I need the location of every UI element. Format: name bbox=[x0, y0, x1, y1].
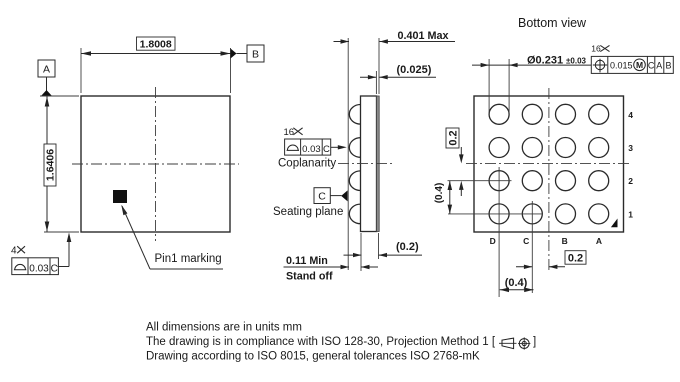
note line 1 bbox=[146, 322, 302, 334]
svg-text:Bottom view: Bottom view bbox=[518, 16, 587, 30]
svg-text:2: 2 bbox=[628, 176, 633, 186]
dimension (0.2) body thickness bbox=[344, 241, 423, 257]
svg-text:1.8008: 1.8008 bbox=[140, 39, 172, 51]
seating plane line bbox=[347, 38, 349, 270]
svg-text:A: A bbox=[43, 64, 50, 76]
datum C bbox=[314, 188, 348, 204]
svg-text:All dimensions are in units mm: All dimensions are in units mm bbox=[146, 322, 302, 334]
bottom view vertical centerline bbox=[548, 88, 550, 270]
svg-text:0.03: 0.03 bbox=[302, 144, 321, 155]
svg-text:A: A bbox=[656, 61, 662, 71]
first angle projection symbol bbox=[499, 337, 530, 349]
datum A bbox=[38, 60, 55, 96]
column labels bbox=[490, 236, 602, 246]
front view vertical centerline bbox=[155, 87, 157, 241]
svg-text:16: 16 bbox=[591, 43, 601, 53]
svg-text:C: C bbox=[318, 191, 326, 203]
bottom view title bbox=[518, 16, 587, 30]
bottom view package outline bbox=[474, 96, 624, 232]
side view horizontal centerline bbox=[338, 163, 393, 165]
svg-text:B: B bbox=[665, 61, 671, 71]
svg-text:B: B bbox=[562, 236, 568, 246]
svg-text:Ø0.231: Ø0.231 bbox=[527, 54, 563, 66]
dimension 0.2 left boxed bbox=[446, 128, 464, 196]
svg-text:0.03: 0.03 bbox=[29, 264, 49, 275]
svg-text:(0.4): (0.4) bbox=[505, 277, 528, 289]
svg-text:0.2: 0.2 bbox=[447, 130, 459, 145]
svg-text:16: 16 bbox=[284, 127, 295, 138]
svg-text:0.015: 0.015 bbox=[610, 60, 633, 70]
coplanarity label bbox=[278, 157, 336, 169]
side view body bbox=[361, 96, 377, 232]
svg-text:1.6406: 1.6406 bbox=[45, 149, 57, 181]
16x coplanarity count note bbox=[284, 127, 303, 138]
dimension (0.025) bbox=[360, 64, 436, 94]
4x profile feature control frame bbox=[12, 258, 59, 275]
svg-text:3: 3 bbox=[628, 143, 633, 153]
svg-text:Seating plane: Seating plane bbox=[273, 206, 343, 218]
svg-text:0.11 Min: 0.11 Min bbox=[286, 255, 328, 267]
svg-text:C: C bbox=[51, 264, 58, 275]
svg-text:]: ] bbox=[533, 336, 536, 348]
coplanarity frame leader arrow bbox=[331, 145, 347, 149]
svg-text:C: C bbox=[523, 236, 529, 246]
note line 3 bbox=[146, 351, 480, 363]
ball diameter dimension bbox=[472, 54, 591, 113]
svg-text:Pin1 marking: Pin1 marking bbox=[155, 253, 222, 265]
dimension 1.8008 extension lines bbox=[81, 48, 231, 93]
svg-text:B: B bbox=[252, 49, 259, 61]
svg-text:Stand off: Stand off bbox=[286, 271, 333, 283]
column D extension line bbox=[498, 167, 500, 297]
bottom edge extension line bbox=[44, 231, 79, 233]
note line 2 bbox=[146, 336, 536, 348]
4x frame leader to bottom edge bbox=[58, 233, 72, 267]
svg-text:M: M bbox=[636, 60, 643, 70]
svg-text:A: A bbox=[596, 236, 602, 246]
A1 corner mark bbox=[611, 219, 618, 228]
svg-text:4: 4 bbox=[11, 245, 17, 256]
svg-text:1: 1 bbox=[628, 209, 633, 219]
dimension 0.401 Max bbox=[334, 30, 456, 94]
svg-text:4: 4 bbox=[628, 110, 633, 120]
dimension 1.6406 line with arrows bbox=[45, 97, 50, 232]
datum B bbox=[231, 45, 265, 62]
coplanarity feature control frame bbox=[285, 139, 331, 155]
dimension 1.6406 boxed value bbox=[44, 144, 57, 186]
seating plane label bbox=[273, 206, 343, 218]
dimension 1.8008 line with arrows bbox=[81, 51, 231, 56]
svg-text:Drawing according to ISO 8015,: Drawing according to ISO 8015, general t… bbox=[146, 351, 480, 363]
svg-text:0.401 Max: 0.401 Max bbox=[398, 30, 449, 42]
16x position count note bbox=[591, 43, 609, 53]
dimension 0.11 Min stand off bbox=[284, 255, 379, 283]
row 2 extension line bbox=[448, 180, 512, 182]
dimension 1.8008 boxed value bbox=[137, 37, 176, 51]
svg-text:±0.03: ±0.03 bbox=[566, 56, 587, 65]
front view horizontal centerline bbox=[72, 163, 239, 165]
row 1 extension line bbox=[448, 213, 542, 215]
4x count note bbox=[11, 245, 25, 256]
svg-text:0.2: 0.2 bbox=[568, 253, 583, 265]
top edge extension line to datum A bbox=[40, 95, 79, 97]
pin1 leader and label bbox=[121, 205, 223, 269]
dimension (0.4) left bbox=[434, 181, 452, 214]
svg-text:(0.025): (0.025) bbox=[397, 64, 432, 76]
position feature control frame bbox=[591, 56, 673, 73]
column C extension line bbox=[531, 201, 533, 293]
svg-text:The drawing is in compliance w: The drawing is in compliance with ISO 12… bbox=[146, 336, 496, 348]
bottom view horizontal centerline bbox=[466, 163, 632, 165]
side view backside laminate bbox=[377, 96, 380, 232]
svg-text:C: C bbox=[648, 61, 655, 71]
pin1 marking square bbox=[113, 190, 127, 203]
dimension 0.2 bottom boxed bbox=[516, 251, 586, 269]
svg-text:Coplanarity: Coplanarity bbox=[278, 157, 336, 169]
row labels bbox=[628, 110, 633, 220]
svg-text:D: D bbox=[490, 236, 496, 246]
side bottom extension lines bbox=[361, 233, 379, 271]
svg-text:C: C bbox=[323, 144, 330, 155]
ball field 4x4 bbox=[489, 104, 609, 224]
svg-text:(0.2): (0.2) bbox=[396, 241, 419, 253]
dimension (0.4) bottom bbox=[500, 277, 534, 292]
svg-text:(0.4): (0.4) bbox=[434, 183, 445, 204]
side view solder balls bbox=[349, 105, 360, 224]
front view package outline bbox=[81, 96, 230, 232]
